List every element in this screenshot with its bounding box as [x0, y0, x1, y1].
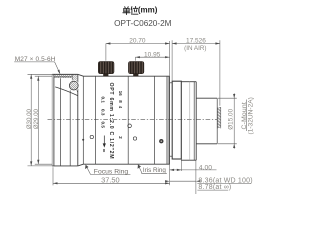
svg-text:Iris Ring: Iris Ring	[143, 167, 167, 174]
white gap around circle	[68, 80, 79, 91]
focus knob shank	[103, 73, 108, 76]
taper top	[78, 74, 84, 76]
8.36 underline	[197, 182, 251, 184]
Ø30 extension bottom	[28, 165, 54, 167]
svg-text:4: 4	[118, 106, 123, 109]
front barrel rear face	[77, 74, 79, 166]
svg-text:8.78(at ∞): 8.78(at ∞)	[198, 184, 231, 191]
c-mount cylinder end face double line	[193, 82, 195, 161]
20.70 arrows	[106, 42, 111, 44]
focus band edge	[95, 76, 97, 164]
title glyph 单 (drawn as paths)	[123, 7, 130, 15]
lock ring	[172, 81, 181, 159]
10.95 arrows	[135, 56, 140, 58]
front bezel outer line	[51, 74, 53, 166]
Ø30 extension top	[28, 73, 54, 75]
body rear face	[169, 76, 171, 164]
iris band edge	[153, 76, 155, 164]
iris ring leader diagonal	[138, 165, 142, 174]
svg-text:Ø29.00: Ø29.00	[33, 108, 40, 129]
37.50 arrows	[53, 182, 58, 184]
c-mount cylinder top	[181, 81, 196, 83]
svg-text:0.1: 0.1	[101, 97, 106, 104]
10.95 extension left	[134, 57, 136, 60]
thread teeth	[54, 77, 72, 78]
svg-text:(mm): (mm)	[138, 6, 158, 15]
svg-text:16: 16	[118, 91, 123, 96]
rear cylinder end face	[216, 98, 218, 144]
svg-text:17.526: 17.526	[186, 38, 206, 45]
focus distance scale column	[101, 83, 124, 160]
4.00 arrows inside pointing outward	[170, 169, 175, 171]
barrel wall hatch column	[72, 75, 78, 93]
17.526 left extension (ring face)	[171, 40, 173, 81]
17.526 right extension	[219, 40, 221, 106]
focus knob	[98, 62, 114, 74]
37.50 dim line	[53, 182, 170, 184]
svg-text:37.50: 37.50	[101, 175, 120, 184]
Ø15 extension bottom	[218, 143, 237, 145]
svg-text:(IN AIR): (IN AIR)	[184, 45, 206, 52]
20.70 extension left	[105, 44, 107, 61]
focus arrow mark	[103, 136, 105, 147]
rear cylinder bottom	[196, 143, 217, 145]
c-mount cylinder bottom	[181, 159, 196, 161]
image plane extension	[195, 160, 197, 194]
17.526 dim line	[172, 43, 220, 45]
svg-text:(1-32UN-2A): (1-32UN-2A)	[248, 97, 255, 134]
svg-text:8: 8	[118, 100, 123, 103]
shared right extension top segment	[169, 41, 171, 83]
arrowheads	[30, 42, 235, 184]
svg-text:OPT 6mm 1:2.0 C 1/2"2M: OPT 6mm 1:2.0 C 1/2"2M	[108, 83, 114, 160]
Ø29 extension bottom	[35, 163, 52, 165]
body rear inner line	[166, 76, 168, 164]
hatched section circle	[69, 81, 78, 90]
svg-text:Focus Ring: Focus Ring	[94, 168, 129, 175]
8.78 underline	[197, 189, 228, 191]
band division center	[127, 76, 129, 164]
rear thread zigzag	[217, 107, 220, 128]
M27 leader arrow	[58, 70, 61, 75]
centerline	[48, 119, 218, 121]
neck bottom	[170, 155, 173, 157]
Ø15 extension top	[218, 97, 237, 99]
inner front line 1	[60, 78, 62, 166]
neck top	[170, 82, 173, 84]
Ø29 extension top	[35, 75, 52, 77]
svg-text:0.3: 0.3	[101, 109, 106, 116]
svg-text:M27 × 0.5-6H: M27 × 0.5-6H	[15, 56, 56, 63]
8.36 arrows	[165, 180, 170, 182]
37.50 extension left	[52, 167, 54, 185]
body groove line	[82, 76, 84, 164]
body bottom edge	[83, 163, 169, 165]
Ø15 dim line	[233, 93, 235, 148]
iris leader arrow	[137, 165, 141, 170]
Ø29 dim line	[37, 76, 39, 164]
c-mount thread relief groove	[189, 82, 191, 161]
4.00 extension right (ring rear)	[180, 159, 182, 171]
4.00 dim line with lead to text	[170, 169, 217, 171]
iris ring underline	[141, 172, 167, 174]
svg-text:OPT-C0620-2M: OPT-C0620-2M	[114, 19, 172, 28]
M27 thread strip hatched	[54, 75, 72, 77]
Ø29 arrows	[37, 76, 39, 81]
label line near C-Mount	[246, 100, 248, 132]
svg-text:0.5: 0.5	[101, 122, 106, 129]
Ø30 dim line	[30, 74, 32, 166]
dimension texts	[15, 38, 255, 191]
front barrel bottom edge	[52, 165, 78, 167]
svg-text:Ø15.00: Ø15.00	[228, 108, 235, 129]
20.70 dim line	[106, 43, 170, 45]
title glyph 位 (drawn as paths)	[131, 7, 138, 15]
body top edge	[83, 75, 169, 77]
svg-text:2: 2	[118, 136, 123, 139]
svg-text:10.95: 10.95	[144, 51, 161, 58]
inner front line 2	[69, 90, 71, 165]
svg-text:20.70: 20.70	[129, 38, 146, 45]
iris knob	[128, 62, 144, 74]
iris knob shank	[133, 73, 138, 76]
10.95 dim line	[135, 56, 169, 58]
focus leader arrow	[85, 165, 89, 170]
svg-text:∞: ∞	[100, 149, 106, 153]
focus ring underline	[90, 173, 130, 175]
front lens surface arc	[55, 87, 77, 96]
front barrel top edge	[52, 73, 78, 75]
taper bottom	[78, 164, 84, 166]
rear cylinder top	[196, 97, 217, 99]
scale index marks on body	[82, 139, 84, 141]
8.36 dim line	[170, 180, 196, 182]
M27 leader diagonal	[55, 62, 60, 74]
shared right extension bottom segment	[169, 156, 171, 185]
Ø30 arrows	[30, 74, 32, 79]
M27 leader underline	[14, 61, 54, 63]
svg-text:4.00: 4.00	[199, 165, 212, 172]
focus ring leader diagonal	[86, 165, 91, 175]
17.526 arrows	[172, 42, 177, 44]
front face	[53, 74, 55, 166]
Ø15 arrows outside	[233, 94, 235, 98]
svg-text:Ø30.00: Ø30.00	[26, 108, 33, 129]
